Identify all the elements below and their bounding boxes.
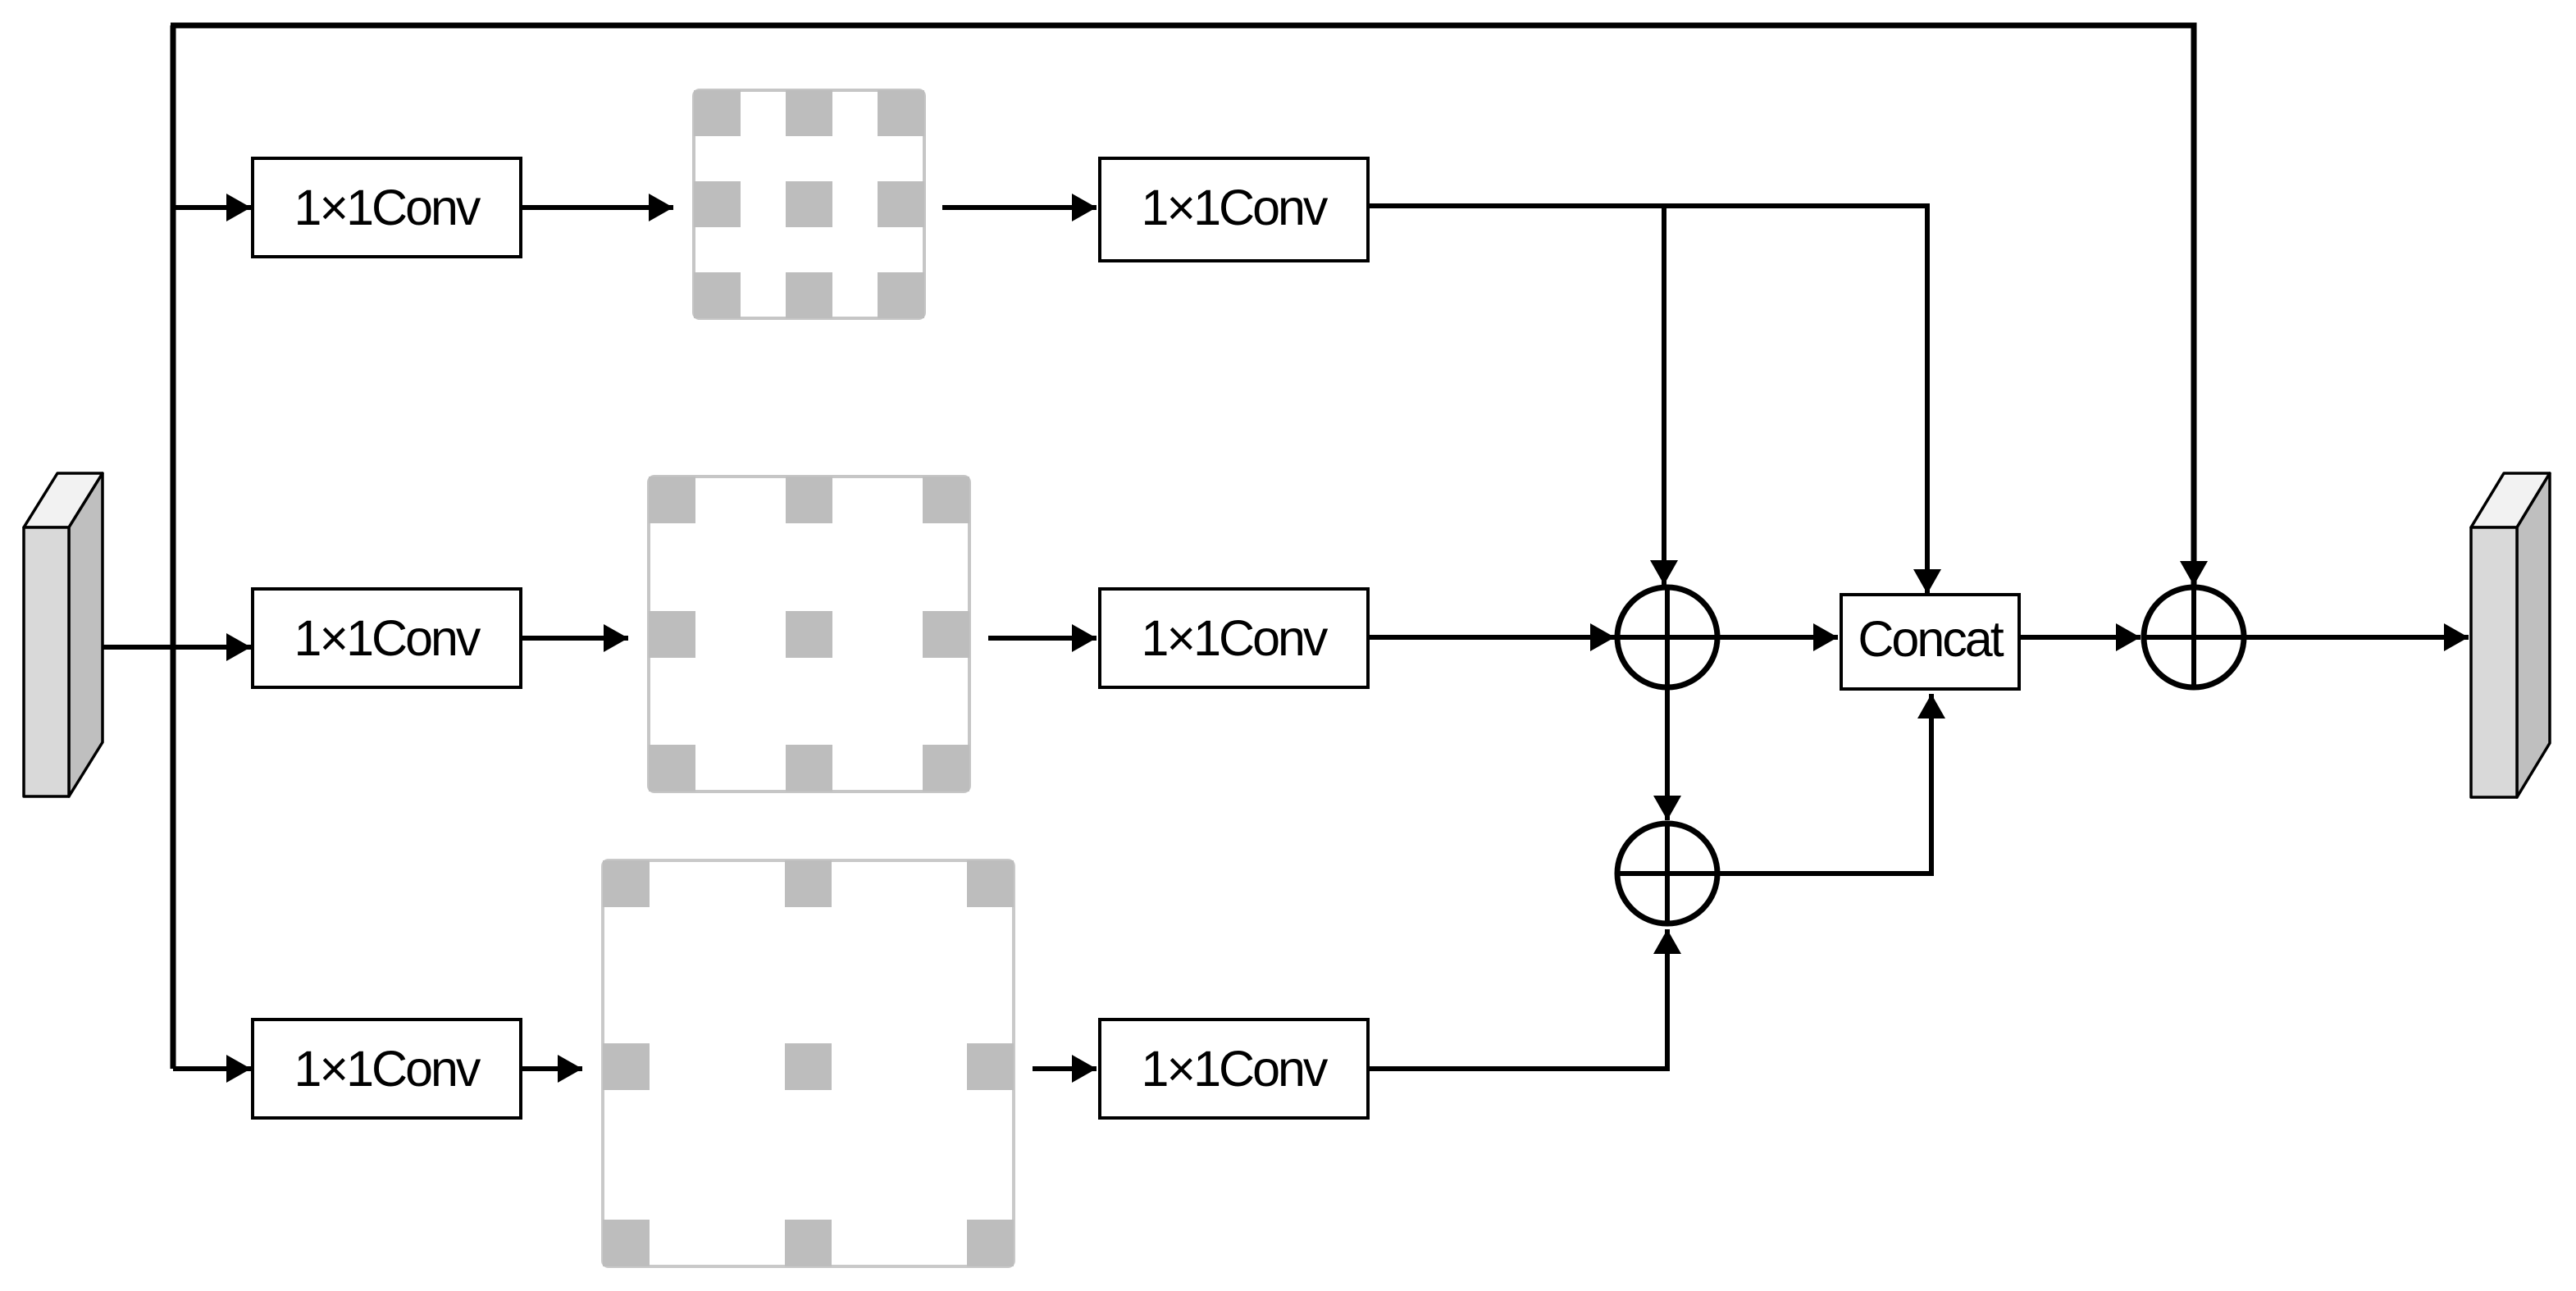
wire: branch arrow into row-3 conv — [173, 1066, 251, 1071]
wire: row3 conv to kernel grid 3 — [521, 1066, 582, 1071]
svg-text:1×1Conv: 1×1Conv — [294, 610, 481, 666]
svg-text:1×1Conv: 1×1Conv — [294, 1041, 481, 1097]
wire: row1 conv to kernel grid 1 — [521, 205, 673, 210]
conv box row3 col2 — [1100, 1020, 1368, 1118]
svg-text:1×1Conv: 1×1Conv — [1142, 180, 1329, 235]
svg-text:Concat: Concat — [1858, 611, 2004, 667]
wire: add circle 3 up into Concat bottom — [1720, 694, 1931, 874]
Concat box — [1841, 595, 2019, 689]
wire: add circle 1 down into add circle 3 — [1665, 690, 1670, 820]
svg-text:1×1Conv: 1×1Conv — [294, 180, 481, 235]
input tensor block — [24, 473, 103, 796]
wire: final add circle to output tensor — [2246, 635, 2469, 640]
wire: trunk vertical from top skip line down to row-3 branch — [171, 25, 176, 1069]
wire: row1 output to Concat top — [1368, 206, 1927, 594]
wire: row2 second conv into add circle 1 — [1368, 635, 1615, 640]
output tensor block — [2471, 473, 2550, 797]
conv box row2 col1 — [253, 589, 521, 687]
add circle 3 — [1617, 823, 1717, 924]
add circle 2 (final) — [2144, 587, 2244, 687]
svg-text:1×1Conv: 1×1Conv — [1142, 1041, 1329, 1097]
wire: row2 conv to kernel grid 2 — [521, 636, 628, 641]
wire: add circle 1 to Concat — [1720, 635, 1838, 640]
conv box row1 col1 — [253, 158, 521, 257]
conv box row1 col2 — [1100, 158, 1368, 261]
wire: kernel grid 2 to row2 second conv — [988, 636, 1097, 641]
wire: Concat to final add circle — [2019, 635, 2141, 640]
wire: kernel grid 3 to row3 second conv — [1033, 1066, 1097, 1071]
dilated kernel grid 2 (rate 2) — [649, 477, 969, 791]
conv box row3 col1 — [253, 1020, 521, 1118]
dilated kernel grid 1 (rate 1) — [694, 90, 924, 318]
dilated kernel grid 3 (rate 3) — [603, 860, 1014, 1266]
svg-text:1×1Conv: 1×1Conv — [1142, 610, 1329, 666]
wire: row3 output up into add circle 3 — [1368, 929, 1667, 1069]
add circle 1 — [1617, 587, 1717, 687]
wire: input tensor to row-2 conv — [98, 645, 251, 650]
wire: top skip connection from trunk to final add circle — [171, 25, 2194, 586]
wire: branch arrow into row-1 conv — [173, 205, 251, 210]
conv box row2 col2 — [1100, 589, 1368, 687]
wire: kernel grid 1 to row1 second conv — [942, 205, 1097, 210]
wire: row1 branch down into add circle 1 — [1662, 206, 1666, 585]
